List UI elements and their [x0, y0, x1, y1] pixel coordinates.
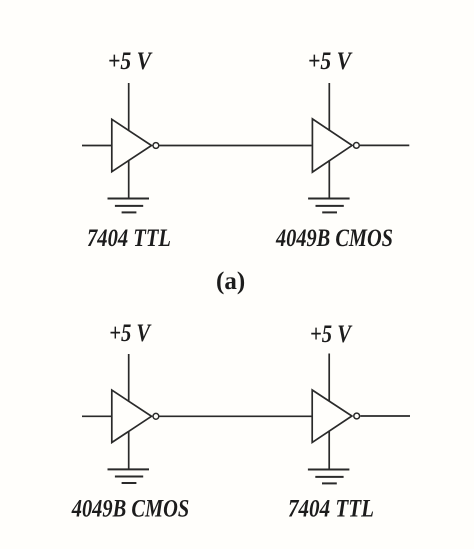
inverter U3 bubble	[153, 413, 159, 419]
wire U4 Vcc	[328, 354, 330, 402]
inverter U1 bubble	[153, 143, 159, 149]
svg-text:7404 TTL: 7404 TTL	[288, 496, 374, 523]
inverter U4 triangle (7404 TTL)	[312, 390, 352, 442]
svg-text:(a): (a)	[216, 268, 245, 295]
wire U2 ground lead	[328, 160, 330, 198]
svg-text:+5 V: +5 V	[308, 48, 353, 75]
wire U3 ground lead	[128, 431, 130, 469]
inverter U3 triangle (4049B CMOS)	[112, 390, 152, 442]
ground U1	[108, 199, 150, 213]
wire U2 output	[360, 144, 409, 146]
svg-text:+5 V: +5 V	[109, 320, 152, 347]
ground U2	[308, 199, 350, 213]
svg-text:+5 V: +5 V	[310, 321, 353, 348]
wire U2 Vcc	[328, 83, 330, 131]
wire U1 output to U2 input	[160, 145, 312, 147]
inverter U1 triangle (7404 TTL)	[112, 119, 152, 171]
wire U3 input	[82, 415, 111, 417]
wire U1 Vcc	[128, 83, 130, 131]
inverter U2 triangle (4049B CMOS)	[312, 119, 352, 172]
wire U4 ground lead	[328, 431, 330, 470]
wire U1 input	[82, 145, 111, 147]
svg-text:+5 V: +5 V	[108, 48, 153, 75]
ground U3	[108, 469, 150, 483]
inverter U2 bubble	[354, 143, 360, 149]
ground U4	[308, 470, 350, 484]
wire U1 ground lead	[128, 160, 130, 198]
wire U4 output	[360, 415, 410, 417]
svg-text:4049B CMOS: 4049B CMOS	[275, 225, 393, 252]
wire U3 Vcc	[128, 354, 130, 402]
svg-text:4049B CMOS: 4049B CMOS	[71, 495, 189, 522]
svg-text:7404 TTL: 7404 TTL	[87, 225, 171, 252]
inverter U4 bubble	[354, 413, 360, 419]
wire U3 output to U4 input	[160, 415, 312, 417]
